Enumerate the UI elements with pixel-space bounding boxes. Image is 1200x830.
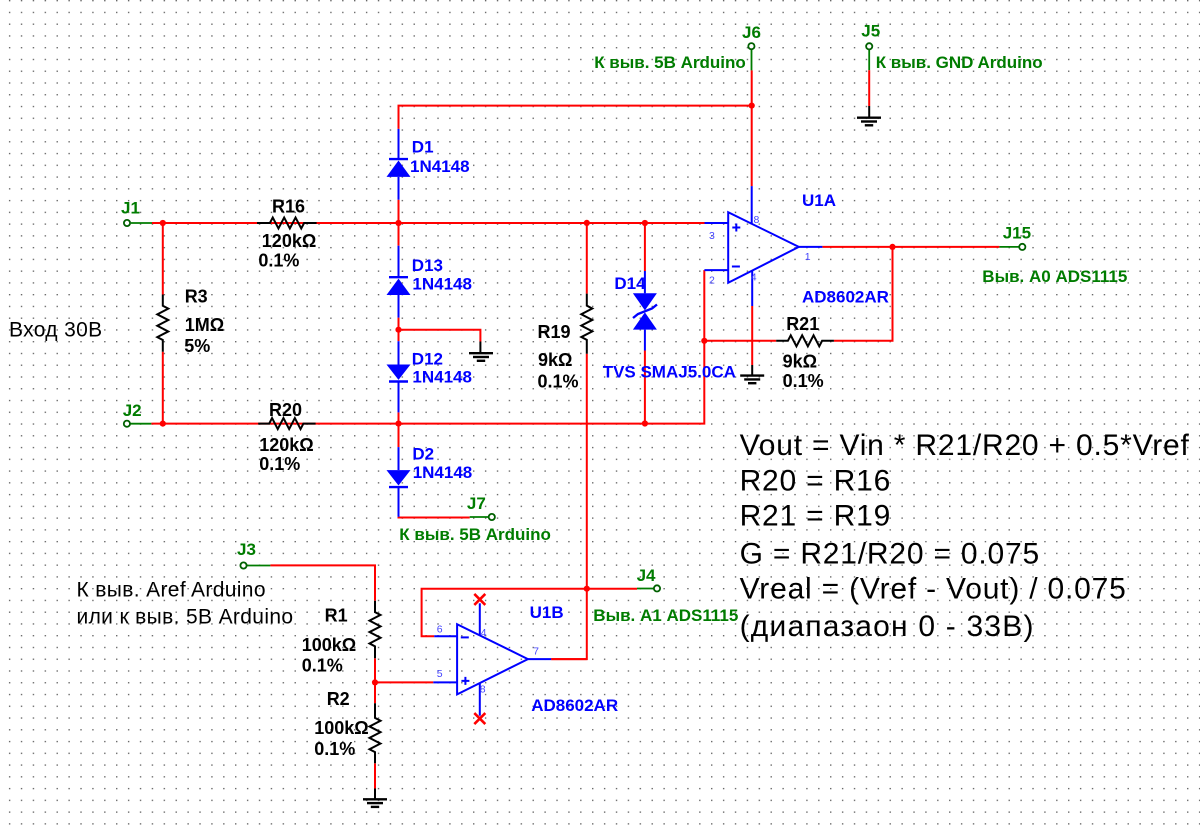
wire: R3 branch verticals [162, 223, 164, 295]
wire: D13 anode lead red from net A [398, 223, 400, 246]
svg-text:4: 4 [481, 627, 487, 639]
svg-text:R1: R1 [325, 606, 348, 626]
wire: D2 anode lead red below net B [398, 424, 400, 448]
svg-text:9kΩ: 9kΩ [783, 352, 817, 372]
connector J6 [748, 43, 754, 49]
svg-text:120kΩ: 120kΩ [262, 231, 316, 251]
svg-text:J7: J7 [467, 494, 486, 513]
svg-text:J1: J1 [121, 199, 140, 218]
ground symbol at U1A pin 4 [751, 365, 753, 376]
svg-text:0.1%: 0.1% [259, 454, 300, 474]
svg-text:(диапазаон 0 - 33В): (диапазаон 0 - 33В) [740, 610, 1035, 643]
op-amp U1B AD8602AR [433, 603, 551, 715]
svg-text:1: 1 [805, 251, 811, 263]
svg-text:R2: R2 [327, 689, 350, 709]
svg-text:R19: R19 [538, 322, 571, 342]
junction 5V rail / J6 [749, 103, 755, 109]
svg-text:AD8602AR: AD8602AR [802, 288, 889, 307]
wire: R19 top lead red [586, 223, 588, 294]
resistor R2 [370, 703, 381, 763]
svg-text:J4: J4 [637, 566, 656, 585]
junction D13-D12 ground branch [395, 327, 401, 333]
svg-text:100kΩ: 100kΩ [302, 635, 356, 655]
svg-text:0.1%: 0.1% [783, 371, 824, 391]
wire: J5 drop to ground [868, 50, 870, 70]
resistor R3 [157, 295, 168, 352]
connector J15 [1019, 244, 1025, 250]
svg-text:U1B: U1B [530, 603, 564, 622]
svg-text:100kΩ: 100kΩ [314, 718, 368, 738]
ground symbol at R2 bottom [374, 789, 376, 800]
svg-text:Vreal = (Vref - Vout) / 0.075: Vreal = (Vref - Vout) / 0.075 [740, 573, 1127, 606]
svg-text:8: 8 [754, 214, 760, 226]
svg-text:R20 = R16: R20 = R16 [740, 464, 891, 497]
svg-text:К выв. GND Arduino: К выв. GND Arduino [876, 53, 1043, 72]
svg-text:R21: R21 [786, 314, 819, 334]
resistor R20 [258, 418, 315, 429]
wire: R19 bottom lead down through net B to J4 node and U1B output [551, 354, 587, 659]
svg-text:6: 6 [437, 623, 443, 635]
svg-text:Vout = Vin * R21/R20 + 0.5*Vre: Vout = Vin * R21/R20 + 0.5*Vref [740, 429, 1190, 462]
wire: R1 bottom / R2 top [374, 658, 376, 703]
svg-text:или к выв. 5В Arduino: или к выв. 5В Arduino [77, 605, 294, 628]
wire: U1A output to J15 [822, 246, 999, 248]
svg-text:R21 = R19: R21 = R19 [740, 500, 891, 533]
svg-text:J15: J15 [1003, 223, 1031, 242]
wire: R1/R2 junction to U1B + input [375, 681, 433, 683]
junction net B / R3 [160, 421, 166, 427]
svg-text:R20: R20 [269, 400, 302, 420]
svg-text:J2: J2 [123, 401, 142, 420]
svg-text:К выв. 5В Arduino: К выв. 5В Arduino [594, 53, 746, 72]
svg-text:К выв. 5В Arduino: К выв. 5В Arduino [399, 525, 551, 544]
svg-text:0.1%: 0.1% [314, 739, 355, 759]
svg-text:D13: D13 [412, 256, 443, 275]
svg-text:120kΩ: 120kΩ [259, 435, 313, 455]
svg-text:Выв. А0 ADS1115: Выв. А0 ADS1115 [982, 267, 1127, 286]
wire: U1B feedback loop to J4 node [422, 589, 587, 637]
svg-text:Выв. А1 ADS1115: Выв. А1 ADS1115 [593, 606, 738, 625]
junction J4 / U1B output / feedback [584, 586, 590, 592]
connector J7 [489, 514, 495, 520]
svg-text:1N4148: 1N4148 [413, 463, 473, 482]
svg-text:5: 5 [437, 668, 443, 680]
resistor R16 [257, 218, 317, 229]
diode D12 1N4148 [398, 341, 400, 364]
svg-text:U1A: U1A [802, 191, 836, 210]
svg-text:1N4148: 1N4148 [412, 367, 472, 386]
svg-text:D12: D12 [412, 350, 443, 369]
ground symbol at D13/D12 node branch [479, 342, 481, 354]
svg-text:9kΩ: 9kΩ [538, 350, 572, 370]
svg-text:R3: R3 [185, 286, 208, 306]
wire: J6 vertical drop to U1A pin 8 [751, 50, 753, 71]
svg-text:1N4148: 1N4148 [410, 157, 470, 176]
wire net A: J1 - R16 - U1A noninverting input (y=223) [131, 222, 152, 224]
junction net A / diode chain [395, 220, 401, 226]
junction net A / R19 [584, 220, 590, 226]
resistor R19 [581, 294, 592, 354]
svg-text:2: 2 [709, 274, 715, 286]
ground symbol at J5 [868, 106, 870, 118]
wire: R2 bottom to ground [374, 763, 376, 788]
junction net B / D14 [642, 420, 648, 426]
wire: D2 cathode to J7 [399, 516, 470, 519]
svg-text:J6: J6 [742, 23, 761, 42]
TVS diode D14 SMAJ5.0CA (bidirectional) [644, 271, 646, 293]
wire: J3 to R1 top [247, 565, 270, 567]
connector J5 [866, 43, 872, 49]
wire net B: J2 - R20 - corner up to U1A inverting input (y=423.6) [130, 423, 151, 425]
svg-text:1МΩ: 1МΩ [185, 315, 224, 335]
wire: D14 branch verticals [644, 223, 646, 271]
junction net B / diode chain [395, 421, 401, 427]
resistor R21 [776, 335, 834, 346]
svg-text:0.1%: 0.1% [538, 371, 579, 391]
svg-text:D1: D1 [412, 137, 434, 156]
wire: D13 top node red segment [398, 318, 400, 342]
connector J3 [240, 562, 246, 568]
wire: J4 stub [587, 588, 637, 590]
junction net A / D14 [642, 220, 648, 226]
wire: 5V rail from J6 junction left and down to D1 [399, 106, 752, 129]
junction inverting node / R21 [701, 338, 707, 344]
no-connect X on U1B pin 4 [474, 594, 485, 605]
junction net A / R3 [160, 220, 166, 226]
svg-text:8: 8 [480, 684, 486, 696]
svg-text:R16: R16 [272, 196, 305, 216]
svg-text:0.1%: 0.1% [258, 250, 299, 270]
junction R1-R2 divider [372, 679, 378, 685]
op-amp U1A AD8602AR [704, 186, 822, 306]
diode D1 1N4148 [398, 129, 400, 158]
no-connect X on U1B pin 8 [474, 713, 485, 724]
diode D13 1N4148 [398, 246, 400, 276]
connector J1 [124, 220, 130, 226]
svg-text:D2: D2 [412, 444, 434, 463]
svg-text:1N4148: 1N4148 [412, 275, 472, 294]
diode D2 1N4148 [398, 447, 400, 470]
wire: D12 cathode lead red to net B [398, 412, 400, 423]
wire: D1 cathode lead red segment above net A [398, 200, 400, 223]
svg-text:Вход 30В: Вход 30В [9, 318, 103, 341]
wire: U1A feedback R21 loop [704, 340, 776, 342]
svg-text:AD8602AR: AD8602AR [531, 696, 618, 715]
svg-text:3: 3 [709, 230, 715, 242]
svg-text:5%: 5% [184, 336, 210, 356]
junction U1A output / R21 [889, 244, 895, 250]
svg-text:7: 7 [533, 646, 539, 658]
connector J2 [124, 421, 130, 427]
resistor R1 [370, 601, 381, 659]
svg-text:0.1%: 0.1% [302, 656, 343, 676]
svg-text:G = R21/R20 = 0.075: G = R21/R20 = 0.075 [740, 538, 1040, 571]
svg-text:J5: J5 [861, 22, 880, 41]
svg-text:К выв. Aref Arduino: К выв. Aref Arduino [77, 578, 266, 601]
wire: branch from D13/D12 node to ground [399, 330, 481, 342]
svg-text:J3: J3 [237, 540, 256, 559]
wire: U1A pin4 to ground [751, 306, 753, 365]
connector J4 [654, 585, 660, 591]
svg-text:4: 4 [751, 271, 757, 283]
svg-text:D14: D14 [614, 274, 646, 293]
wire: U1B output red segment [551, 658, 587, 660]
svg-text:TVS SMAJ5.0CA: TVS SMAJ5.0CA [603, 363, 736, 382]
